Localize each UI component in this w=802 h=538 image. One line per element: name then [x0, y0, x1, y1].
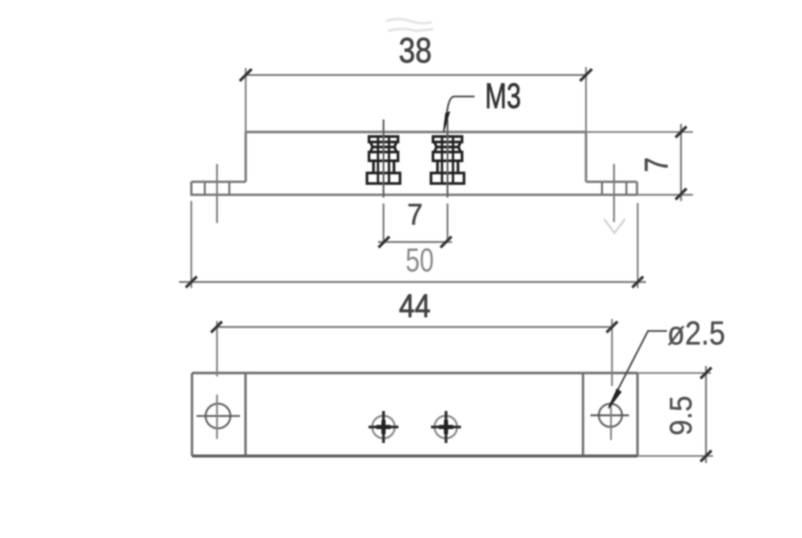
svg-text:9.5: 9.5 — [663, 396, 699, 436]
svg-text:44: 44 — [399, 288, 431, 324]
svg-text:M3: M3 — [485, 77, 521, 116]
svg-text:7: 7 — [407, 198, 423, 231]
svg-text:50: 50 — [405, 242, 434, 279]
svg-text:ø2.5: ø2.5 — [667, 315, 725, 352]
svg-text:38: 38 — [399, 32, 432, 71]
svg-text:7: 7 — [639, 157, 675, 172]
